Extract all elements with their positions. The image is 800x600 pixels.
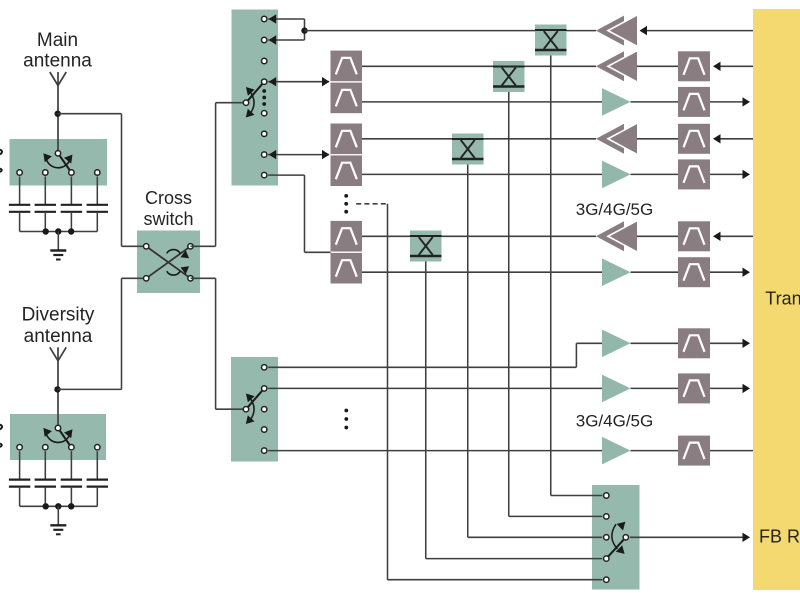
power amplifier PA1 [596,16,637,46]
wire F5 to transceiver (Rx) [710,170,750,179]
wire LNA8 to F8 [631,342,679,344]
upper bank terminal 3 [262,58,267,63]
FB switch terminal 1 [604,493,609,498]
antenna tuner U2 block (diversity) [10,414,106,460]
upper bank rotary arm [246,82,264,103]
tuner U2 rotary switch arm [58,428,71,447]
cross switch label [143,188,193,229]
tuner U2 terminal 1 [17,445,22,450]
svg-text:antenna: antenna [24,326,93,347]
wire coupler X4 tap to FB switch t4 [426,262,603,559]
wire upper bank t8 to duplexer 3 [268,175,330,252]
wire diversity antenna to cross switch [58,278,147,389]
wire LNA3 to F3 [631,101,679,103]
duplexer 2 Tx filter [331,124,363,155]
svg-text:3G/4G/5G: 3G/4G/5G [576,412,653,431]
wire F9 to transceiver (Rx) [710,384,750,393]
wire FB switch pole to transceiver (FB Rx) [630,533,750,542]
label 3G/4G/5G (lower) [576,412,653,431]
FB switch terminal 3 [604,535,609,540]
wire coupler X1 tap to FB switch t1 [551,56,603,496]
cut-off label fragment (main tuner) [0,150,2,173]
junction dots on bus (diversity tuner) [43,503,75,509]
wire capacitor bus (main tuner) [20,231,98,233]
wire row 3 Rx (duplexer1 to LNA3) [362,101,602,103]
upper bank ellipsis dots [262,89,266,106]
wire F8 to transceiver (Rx) [710,339,750,348]
wire upper bank t4 to duplexer 1 [268,77,329,86]
capacitor C2 [35,177,56,232]
low-noise amplifier LNA3 [602,88,631,116]
duplexer 1 Tx filter [331,51,363,82]
band filter F4 [678,124,710,154]
ellipsis dots (omitted duplexers) [344,194,348,214]
ground (diversity tuner) [50,506,66,534]
node B junction (diversity antenna) [54,386,60,392]
duplexer 2 Rx filter [331,155,363,186]
capacitor C8 [87,451,108,506]
wire row 7 Rx (duplexer3 to LNA7) [362,271,602,273]
wire LNA5 to F5 [631,173,679,175]
low-noise amplifier LNA5 [602,161,631,189]
cross switch port TR [188,244,193,249]
capacitor C4 [87,177,108,232]
band filter F7 [678,257,710,287]
lower bank ellipsis dots [344,409,348,430]
svg-text:Main: Main [37,30,78,51]
lower bank rotation arc [246,394,255,425]
tuner U1 pole [55,151,60,156]
svg-text:Cross: Cross [145,188,192,208]
wire lower bank t1 to LNA row 8 [268,343,602,367]
upper bank terminal 6 [262,131,267,136]
coupler X1 [535,25,567,56]
wire F7 to transceiver (Rx) [710,268,750,277]
tuner U2 terminal 3 [69,445,74,450]
main antenna ANT1 label [23,30,92,72]
coupler X2 [493,61,525,92]
diversity antenna ANT2 label [22,305,95,348]
lower bank rotary arm [246,388,264,409]
tuner U2 terminal 4 [95,445,100,450]
wire upper bank t1 to node C [268,14,304,30]
cross switch U5 block [137,231,200,294]
wire LNA9 to F9 [631,387,679,389]
wire coupler X3 tap to FB switch t3 [468,165,603,538]
band filter F3 [678,87,710,117]
wire row 6 Tx (duplexer3 to PA6) [362,235,596,237]
lower bank terminal 5 [262,448,267,453]
tuner U1 rotation arc [43,153,72,168]
low-noise amplifier LNA9 [602,375,631,403]
antenna switch bank U4 block (lower) [231,357,278,462]
band filter F8 [678,328,710,358]
wire F3 to transceiver (Rx) [710,97,750,106]
wire row 4 Tx (duplexer2 to PA4) [362,138,596,140]
wire PA6 to F6 [637,235,678,237]
lower bank terminal 2 [262,386,267,391]
wire main antenna to cross switch [58,114,147,247]
lower bank terminal 1 [262,365,267,370]
tuner U1 terminal 3 [69,170,74,175]
wire row 5 Rx (duplexer2 to LNA5) [362,173,602,175]
wire coupler drop 5 to FB switch t5 [388,579,603,581]
svg-text:3G/4G/5G: 3G/4G/5G [576,200,653,219]
tuner U1 terminal 4 [95,170,100,175]
band filter F2 [678,51,710,81]
wire node C to PA1 (row 1 Tx) [305,30,597,32]
wire capacitor bus (diversity tuner) [20,505,98,507]
cross switch rotation arcs [167,250,189,276]
wire transceiver Tx row 4 [713,134,753,143]
upper bank terminal 8 [262,172,267,177]
low-noise amplifier LNA8 [602,330,631,358]
transceiver label [765,289,800,309]
wire row 2 Tx (duplexer1 to PA2) [362,65,596,67]
FB switch terminal 2 [604,514,609,519]
tuner U2 pole [55,425,60,430]
wire lower bank t2 to LNA row 9 [268,387,602,389]
upper bank terminal 2 [262,37,267,42]
FB Rx switch U6 block [592,485,640,590]
node C junction [301,27,307,33]
svg-text:Transceiver: Transceiver [765,289,800,309]
wire LNA7 to F7 [631,271,679,273]
tuner U1 rotary switch arm [58,153,71,172]
coupler X3 [452,134,484,165]
capacitor C7 [61,451,82,506]
wire upper bank t7 to duplexer 2 [268,150,329,159]
upper bank terminal 5 [262,111,267,116]
tuner U2 rotation arc [43,428,72,443]
cross switch diagonal 1 [146,246,190,278]
svg-text:switch: switch [143,209,193,229]
lower bank terminal 4 [262,427,267,432]
svg-text:Diversity: Diversity [22,305,95,326]
duplexer 3 Tx filter [331,221,363,252]
capacitor C3 [61,177,82,232]
lower bank terminal 3 [262,407,267,412]
wire LNA10 to F10 [631,450,679,452]
antenna tuner U1 block (main) [10,139,108,186]
low-noise amplifier LNA7 [602,258,631,286]
upper bank terminal 1 [262,16,267,21]
lower bank pole [243,407,248,412]
low-noise amplifier LNA10 [602,437,631,465]
antenna switch bank U3 block (upper) [232,10,279,186]
junction dots on bus (main tuner) [43,228,75,234]
power amplifier PA6 [596,221,637,251]
coupler X4 [410,231,442,262]
wire transceiver Tx row 1 [640,26,754,35]
svg-text:FB Rx: FB Rx [759,527,800,547]
band filter F10 [678,436,710,466]
band filter F5 [678,159,710,189]
FB Rx label [759,527,800,547]
wire transceiver Tx row 2 [713,62,753,71]
wire upper bank t2 to node C [268,31,304,45]
wire PA4 to F4 [637,138,678,140]
FB switch terminal 5 [604,577,609,582]
main antenna ANT1 symbol [50,72,66,150]
upper bank rotation arc [246,87,255,118]
node A junction (main antenna) [55,111,61,117]
diversity antenna ANT2 symbol [50,347,66,425]
power amplifier PA4 [596,124,637,154]
band filter F9 [678,373,710,403]
capacitor C6 [35,451,56,506]
wire PA2 to F2 [637,65,678,67]
wire lower bank t5 to LNA row 10 [268,450,602,452]
FB switch pole [623,535,628,540]
tuner U2 terminal 2 [43,445,48,450]
cross switch port TL [144,244,149,249]
wire cross TR to upper bank pole [191,103,247,247]
cut-off label fragment (diversity tuner) [0,425,2,448]
power amplifier PA2 [596,51,637,81]
duplexer 1 Rx filter [331,83,363,114]
cross switch port BR [188,276,193,281]
tuner U1 terminal 2 [43,170,48,175]
band filter F6 [678,221,710,251]
upper bank terminal 7 [262,152,267,157]
dashed wire to coupler drop 5 [356,204,387,580]
cross switch diagonal 2 [146,246,190,278]
wire cross BR to lower bank pole [191,278,247,409]
wire transceiver Tx row 6 [713,232,753,241]
tuner U1 terminal 1 [17,170,22,175]
ground (main tuner) [50,232,66,260]
FB switch rotation arc [612,522,626,554]
capacitor C5 [9,451,30,506]
transceiver block [753,9,800,590]
FB switch terminal 4 [604,556,609,561]
duplexer 3 Rx filter [331,253,363,284]
upper bank pole [243,100,248,105]
wire F10 to transceiver [710,450,753,452]
svg-text:antenna: antenna [23,51,92,72]
FB switch rotary arm [606,537,626,558]
cross switch port BL [144,276,149,281]
wire coupler X2 tap to FB switch t2 [509,92,603,516]
capacitor C1 [9,177,30,232]
label 3G/4G/5G (upper) [576,200,653,219]
upper bank terminal 4 [262,79,267,84]
